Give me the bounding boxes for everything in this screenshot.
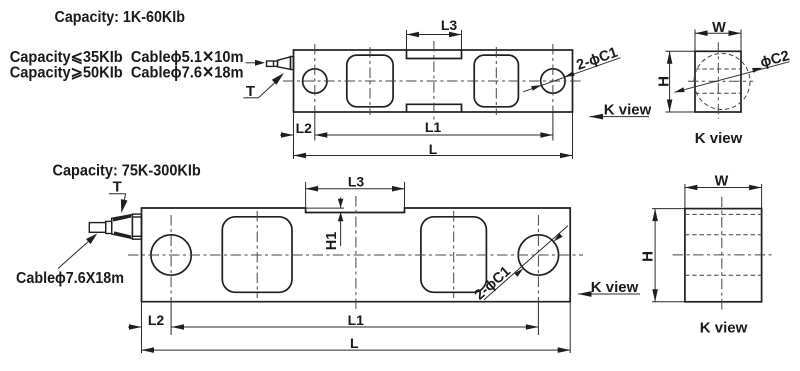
svg-text:Capacity: 75K-300KIb: Capacity: 75K-300KIb — [53, 163, 201, 180]
svg-text:L1: L1 — [425, 119, 442, 135]
svg-text:H1: H1 — [324, 232, 340, 251]
svg-text:W: W — [715, 174, 729, 190]
svg-text:L: L — [350, 335, 359, 351]
svg-text:Capacity⩽35KIb Cableϕ5.1✕10m: Capacity⩽35KIb Cableϕ5.1✕10m — [10, 49, 244, 66]
svg-text:K view: K view — [700, 320, 748, 337]
svg-text:K view: K view — [695, 130, 743, 147]
svg-text:Cableϕ7.6X18m: Cableϕ7.6X18m — [16, 270, 124, 287]
svg-text:L2: L2 — [296, 120, 313, 136]
svg-text:K view: K view — [604, 102, 652, 119]
svg-text:L2: L2 — [148, 312, 165, 328]
svg-text:Capacity: 1K-60KIb: Capacity: 1K-60KIb — [55, 9, 186, 26]
svg-text:H: H — [656, 76, 673, 87]
svg-text:Capacity⩾50KIb Cableϕ7.6✕18m: Capacity⩾50KIb Cableϕ7.6✕18m — [10, 65, 244, 82]
svg-text:H: H — [640, 251, 657, 262]
svg-text:L1: L1 — [348, 312, 365, 328]
svg-text:L: L — [429, 141, 438, 157]
svg-text:L3: L3 — [348, 173, 365, 189]
svg-text:T: T — [246, 83, 255, 100]
svg-text:K view: K view — [591, 279, 639, 296]
svg-text:W: W — [712, 20, 726, 36]
svg-text:T: T — [113, 179, 122, 196]
svg-text:L3: L3 — [441, 17, 458, 33]
